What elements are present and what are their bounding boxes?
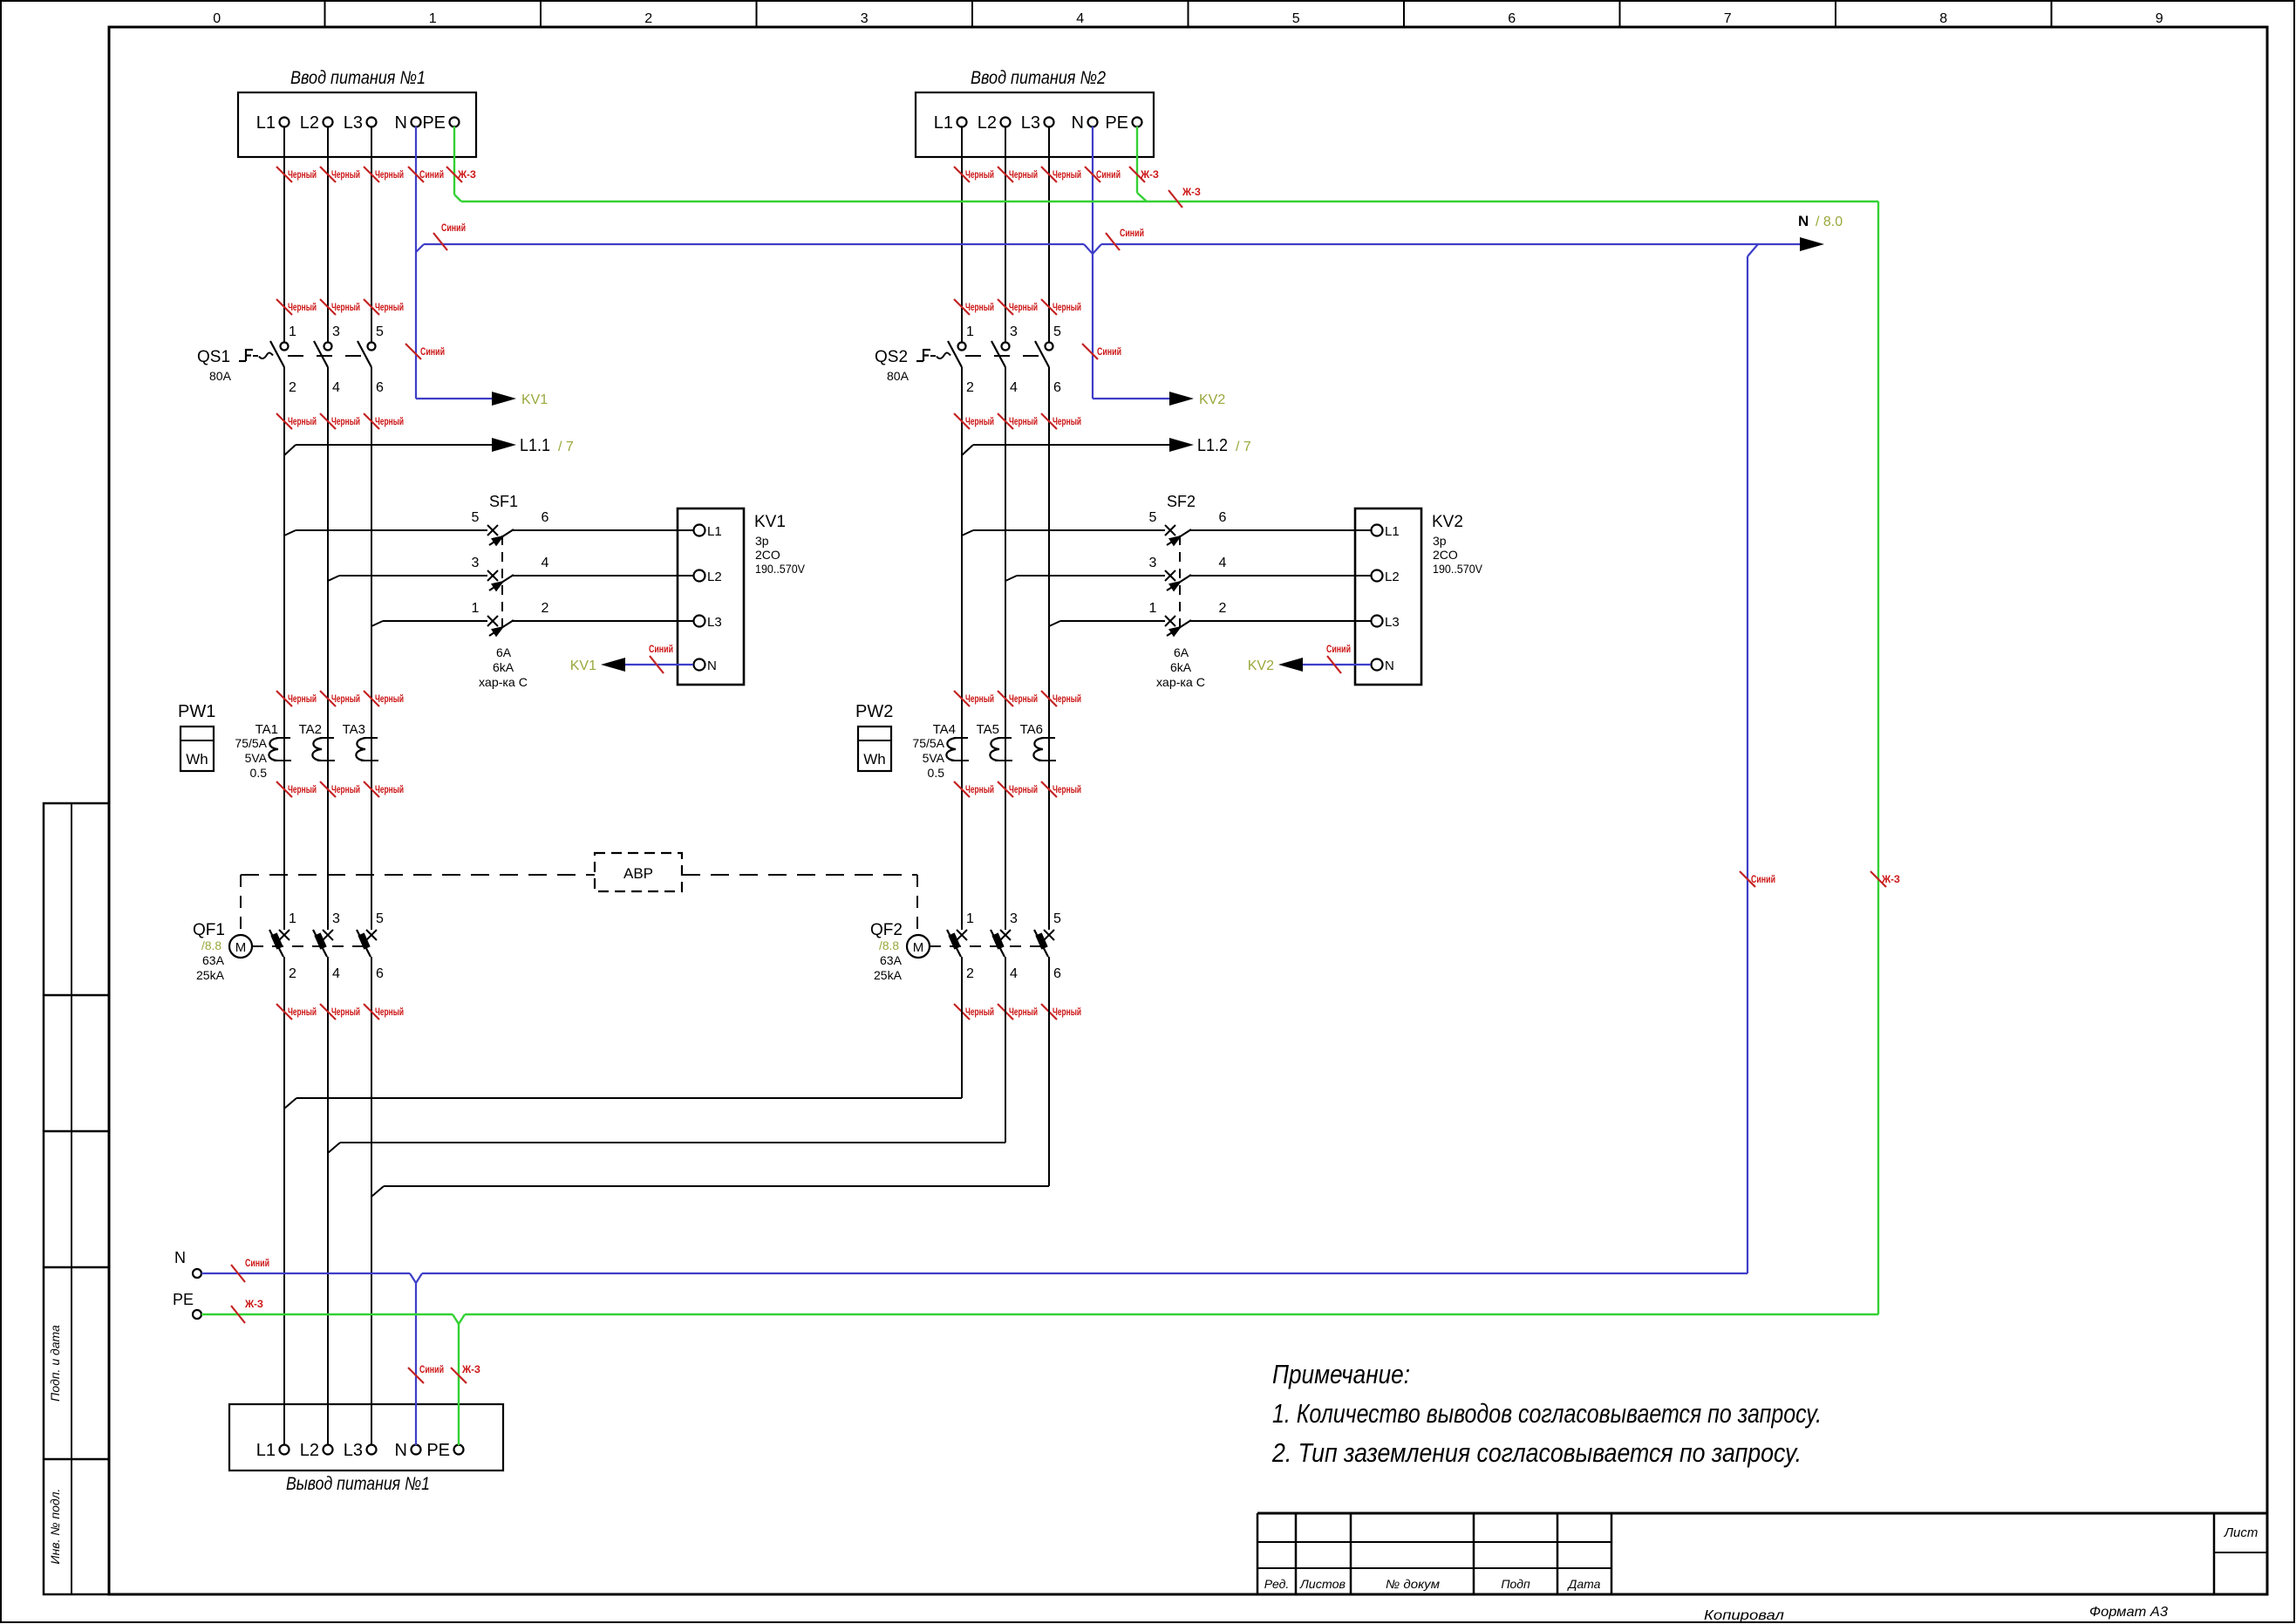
CT ratings for PW1 group: [235, 736, 267, 780]
svg-text:4: 4: [332, 380, 340, 395]
wire N bottom rail (blue): [201, 1273, 1748, 1283]
svg-text:Синий: Синий: [245, 1259, 269, 1269]
svg-text:6kA: 6kA: [493, 660, 514, 674]
wire color marks "Черный" below QF2: [954, 1004, 1081, 1020]
svg-text:2: 2: [542, 601, 549, 616]
svg-text:KV2: KV2: [1432, 513, 1463, 531]
svg-text:3: 3: [1149, 556, 1157, 570]
svg-text:L2: L2: [300, 113, 319, 133]
wire PE input-1 vertical (green): [453, 126, 455, 194]
svg-text:Дата: Дата: [1567, 1577, 1601, 1591]
current transformer TA6: [1020, 722, 1056, 761]
svg-text:6: 6: [376, 380, 384, 395]
svg-text:L3: L3: [344, 113, 363, 133]
svg-text:Синий: Синий: [1751, 875, 1775, 885]
svg-text:2: 2: [1219, 601, 1227, 616]
svg-text:Ж-З: Ж-З: [457, 170, 476, 181]
junction PE rail / PE input-2 (diagonal): [1137, 193, 1147, 201]
svg-text:PE: PE: [426, 1441, 450, 1460]
svg-text:Черный: Черный: [1053, 785, 1081, 795]
QF2 motor drive M: [907, 935, 930, 958]
wire L3 QS1-to-QF1 vertical: [371, 367, 372, 930]
svg-text:1: 1: [289, 911, 296, 926]
wire color mark "Ж-З" on PE rail right of input-2: [1168, 190, 1182, 208]
svg-text:5: 5: [1053, 324, 1061, 339]
QS1 pole 2 (pins 3-4): [314, 324, 340, 395]
junction PE1 to PE rail (diagonal): [454, 194, 461, 201]
svg-text:Черный: Черный: [965, 1007, 994, 1018]
svg-text:Синий: Синий: [1326, 645, 1351, 655]
current transformer TA3: [343, 722, 378, 761]
SF1 pole 2 (pins 3-4): [328, 556, 678, 591]
svg-text:5VA: 5VA: [923, 751, 945, 765]
svg-text:Черный: Черный: [1053, 1007, 1081, 1018]
wire L1 input-1 vertical: [283, 126, 285, 342]
svg-text:Черный: Черный: [331, 785, 360, 795]
svg-text:Копировал: Копировал: [1704, 1608, 1784, 1623]
svg-text:/ 7: / 7: [558, 440, 574, 454]
svg-text:Синий: Синий: [1096, 170, 1121, 181]
svg-text:L3: L3: [344, 1441, 363, 1460]
sidebar stamp boxes: [44, 803, 109, 1594]
wire N right vertical (blue): [1747, 256, 1748, 1273]
svg-text:KV1: KV1: [570, 658, 596, 673]
SF1 linkage dashed line: [501, 536, 503, 633]
svg-text:0.5: 0.5: [250, 766, 268, 780]
svg-text:N: N: [1072, 113, 1084, 133]
svg-text:N: N: [395, 1441, 407, 1460]
wire color marks above TA4-TA6: [954, 691, 1081, 706]
svg-text:KV2: KV2: [1199, 392, 1225, 407]
svg-text:1: 1: [966, 324, 974, 339]
wire L1 QS1-to-QF1 vertical: [283, 367, 285, 930]
svg-text:3: 3: [1010, 911, 1018, 926]
wire color marks below QS2: [954, 413, 1081, 429]
svg-text:Черный: Черный: [1053, 694, 1081, 705]
QF1 motor drive M: [229, 935, 252, 958]
svg-text:6: 6: [542, 510, 549, 525]
svg-text:Ж-З: Ж-З: [1140, 170, 1159, 181]
wire color marks above TA1-TA3: [276, 691, 404, 706]
svg-text:190..570V: 190..570V: [755, 562, 806, 576]
QS1 pole 1 (pins 1-2): [270, 324, 296, 395]
svg-text:Ж-З: Ж-З: [244, 1300, 263, 1310]
svg-text:0: 0: [213, 11, 221, 26]
wire KV2 coil feed (blue) from N2: [1093, 398, 1171, 399]
wire L3 QS2-to-QF2 vertical: [1048, 367, 1050, 930]
svg-text:Ж-З: Ж-З: [1881, 875, 1900, 885]
QS2 linkage dashed line: [930, 355, 936, 357]
wire color mark "Синий" on N rail right: [1106, 233, 1120, 250]
motorized circuit breaker QF2: [870, 921, 903, 982]
wire L1 QF1-to-output vertical: [283, 957, 285, 1445]
wire QF2 L3 riser: [1048, 957, 1050, 1186]
current transformer TA5: [977, 722, 1012, 761]
wire PE right vertical (green): [1877, 201, 1879, 1314]
svg-text:L3: L3: [1385, 615, 1400, 630]
wire color marks "Черный" below QF1: [276, 1004, 404, 1020]
svg-text:4: 4: [1219, 556, 1227, 570]
wire color marks above QS2: [954, 299, 1081, 315]
svg-text:M: M: [913, 940, 924, 955]
QF1 pole 1 (pins 1-2): [269, 911, 296, 981]
svg-text:PE: PE: [1105, 113, 1128, 133]
svg-text:Лист: Лист: [2224, 1525, 2259, 1540]
svg-text:/8.8: /8.8: [201, 938, 221, 952]
svg-text:TA6: TA6: [1020, 722, 1043, 737]
svg-text:N: N: [174, 1249, 186, 1266]
wire crossover L3 horizontal: [371, 1186, 1049, 1197]
svg-text:Ж-З: Ж-З: [461, 1365, 480, 1375]
wire N rail top (blue): [424, 243, 1084, 245]
svg-text:25kA: 25kA: [196, 968, 225, 982]
sheet column ruler: [213, 1, 2163, 27]
svg-text:Подп: Подп: [1501, 1577, 1530, 1591]
svg-text:1: 1: [429, 11, 437, 26]
svg-text:4: 4: [1010, 966, 1018, 981]
svg-text:QS2: QS2: [875, 348, 908, 366]
svg-text:Черный: Черный: [1053, 170, 1081, 181]
svg-text:Черный: Черный: [331, 417, 360, 427]
voltage relay KV2: [1355, 508, 1483, 685]
svg-text:Подп. и дата: Подп. и дата: [48, 1325, 62, 1402]
svg-text:L1: L1: [707, 524, 722, 539]
svg-text:Синий: Синий: [419, 1365, 444, 1375]
wire branch L1.1 with arrow: [284, 436, 574, 455]
wire L2 input-2 vertical: [1005, 126, 1006, 342]
SF2 linkage dashed line: [1179, 536, 1181, 633]
svg-text:PE: PE: [422, 113, 446, 133]
svg-text:N: N: [395, 113, 407, 133]
svg-text:Листов: Листов: [1299, 1577, 1346, 1591]
svg-text:Черный: Черный: [1009, 1007, 1038, 1018]
svg-text:L1: L1: [1385, 524, 1400, 539]
svg-text:L3: L3: [707, 615, 722, 630]
svg-text:M: M: [235, 940, 247, 955]
svg-text:KV2: KV2: [1248, 658, 1274, 673]
svg-text:2. Тип заземления согласовывае: 2. Тип заземления согласовывается по зап…: [1271, 1437, 1802, 1468]
svg-text:L1.1: L1.1: [520, 436, 550, 455]
svg-text:Черный: Черный: [965, 303, 994, 313]
SF1 pole 3 (pins 1-2): [371, 601, 678, 637]
SF2 pole 2 (pins 3-4): [1005, 556, 1355, 591]
wire branch L1.2 with arrow: [962, 436, 1251, 455]
switch-disconnector QS2: [875, 348, 1044, 383]
terminal N bottom-left: [174, 1249, 201, 1278]
QS2 pole 1 (pins 1-2): [948, 324, 974, 395]
svg-text:8: 8: [1939, 11, 1947, 26]
QF1 pole 3 (pins 5-6): [357, 911, 384, 981]
svg-text:L1: L1: [934, 113, 953, 133]
wire color marks below TA4-TA6: [954, 781, 1081, 797]
svg-text:Примечание:: Примечание:: [1272, 1359, 1410, 1389]
svg-text:L2: L2: [1385, 570, 1400, 584]
wire N input-2 vertical (blue): [1092, 126, 1093, 399]
SF2 pole 1 (pins 5-6): [962, 510, 1355, 546]
svg-text:5: 5: [1149, 510, 1157, 525]
svg-text:Синий: Синий: [1097, 347, 1121, 358]
svg-text:Черный: Черный: [288, 785, 317, 795]
svg-text:АВР: АВР: [623, 865, 653, 882]
svg-text:хар-ка С: хар-ка С: [479, 675, 528, 689]
svg-text:Черный: Черный: [331, 1007, 360, 1018]
svg-text:4: 4: [542, 556, 549, 570]
svg-text:KV1: KV1: [754, 513, 786, 531]
svg-text:/ 8.0: / 8.0: [1816, 215, 1843, 229]
wire PE bottom rail (green): [201, 1314, 1878, 1324]
wire PE input-2 vertical (green): [1136, 126, 1138, 193]
circuit breaker SF1: [479, 493, 528, 689]
svg-text:9: 9: [2156, 11, 2163, 26]
svg-text:2: 2: [644, 11, 652, 26]
svg-text:N: N: [1385, 658, 1394, 673]
svg-text:6: 6: [1219, 510, 1227, 525]
svg-text:Синий: Синий: [419, 170, 444, 181]
QS2 pole 3 (pins 5-6): [1035, 324, 1061, 395]
svg-text:6kA: 6kA: [1170, 660, 1192, 674]
svg-text:3: 3: [332, 324, 340, 339]
svg-text:Черный: Черный: [1009, 303, 1038, 313]
svg-text:6: 6: [376, 966, 384, 981]
SF1 pole 1 (pins 5-6): [284, 510, 678, 546]
svg-text:4: 4: [1076, 11, 1084, 26]
notes text: [1271, 1359, 1822, 1468]
svg-text:Черный: Черный: [1053, 303, 1081, 313]
wire color marks below input block 1: [276, 167, 476, 182]
wire color marks below input block 2: [954, 167, 1159, 182]
svg-text:1: 1: [472, 601, 480, 616]
QF2 pole 3 (pins 5-6): [1034, 911, 1061, 981]
svg-text:№ докум: № докум: [1386, 1577, 1440, 1591]
wire color mark "Синий" on N rail left: [433, 233, 447, 250]
svg-text:4: 4: [1010, 380, 1018, 395]
svg-text:KV1: KV1: [521, 392, 548, 407]
svg-text:1: 1: [1149, 601, 1157, 616]
ATS controller АВР (dashed box): [595, 853, 682, 891]
svg-text:PW2: PW2: [855, 702, 893, 721]
wire L3 input-2 vertical: [1048, 126, 1050, 342]
svg-text:хар-ка С: хар-ка С: [1156, 675, 1205, 689]
svg-text:Черный: Черный: [375, 170, 404, 181]
wire color marks below QS1: [276, 413, 404, 429]
svg-text:Черный: Черный: [965, 417, 994, 427]
svg-text:63A: 63A: [202, 953, 225, 967]
wire color mark "Синий" on KV2 N wire: [1327, 656, 1341, 673]
wire color mark "Синий" on right N vertical: [1740, 871, 1755, 887]
svg-text:Черный: Черный: [288, 303, 317, 313]
junction N rail to right N vertical (diagonal): [1748, 244, 1758, 256]
wire KV1 coil feed (blue) from N1: [416, 398, 494, 399]
motorized circuit breaker QF1: [193, 921, 225, 982]
energy meter PW1: [178, 702, 215, 771]
АВР dashed drop to QF2 motor: [916, 875, 918, 933]
QF2 pole 2 (pins 3-4): [991, 911, 1018, 981]
wire N input-1 vertical (blue): [415, 126, 417, 399]
wire L1 QS2-to-QF2 vertical: [961, 367, 963, 930]
svg-text:4: 4: [332, 966, 340, 981]
svg-text:Черный: Черный: [288, 170, 317, 181]
net arrow N / 8.0: [1800, 237, 1824, 251]
QS1 linkage dashed line: [253, 355, 258, 357]
svg-text:Wh: Wh: [863, 751, 886, 768]
АВР control dashed line right: [682, 874, 917, 876]
QF2 linkage dashed line: [930, 945, 1044, 947]
svg-text:7: 7: [1724, 11, 1732, 26]
svg-text:L2: L2: [300, 1441, 319, 1460]
wire L2 input-1 vertical: [327, 126, 329, 342]
terminal block "Ввод питания №1" XT1: [238, 68, 476, 157]
svg-text:80A: 80A: [887, 369, 910, 383]
terminal PE bottom-left: [173, 1291, 201, 1319]
wire QF2 L2 riser: [1005, 957, 1006, 1143]
wire color mark "Синий" on N2 vertical: [1082, 344, 1098, 359]
wire color mark "Ж-З" on right PE vertical: [1870, 871, 1886, 887]
wire color marks above QS1: [276, 299, 404, 315]
svg-text:80A: 80A: [209, 369, 232, 383]
svg-text:3p: 3p: [755, 534, 769, 548]
QS2 pole 2 (pins 3-4): [991, 324, 1018, 395]
svg-text:6A: 6A: [496, 645, 512, 659]
wire KV1 N pin to coil net arrow (blue): [570, 658, 693, 673]
svg-text:6: 6: [1508, 11, 1516, 26]
wire color mark "Синий" on bottom N rail: [231, 1265, 245, 1282]
svg-text:SF2: SF2: [1167, 493, 1196, 510]
svg-text:6: 6: [1053, 966, 1061, 981]
wire PE drop to output block (green): [458, 1324, 460, 1445]
svg-text:Черный: Черный: [1053, 417, 1081, 427]
svg-text:Черный: Черный: [1009, 785, 1038, 795]
energy meter PW2: [855, 702, 893, 771]
svg-text:2: 2: [966, 966, 974, 981]
svg-text:2: 2: [289, 966, 296, 981]
svg-text:2: 2: [966, 380, 974, 395]
svg-text:5: 5: [376, 911, 384, 926]
wire color mark "Синий" on N drop: [408, 1368, 424, 1383]
svg-text:Черный: Черный: [1009, 694, 1038, 705]
wire color mark "Синий" on N1 vertical: [405, 344, 421, 359]
terminal block "Ввод питания №2" XT2: [916, 68, 1154, 157]
svg-text:Черный: Черный: [331, 303, 360, 313]
svg-text:TA1: TA1: [255, 722, 278, 737]
svg-text:3: 3: [1010, 324, 1018, 339]
svg-text:25kA: 25kA: [874, 968, 903, 982]
svg-text:Wh: Wh: [186, 751, 208, 768]
svg-text:63A: 63A: [880, 953, 903, 967]
svg-text:5VA: 5VA: [245, 751, 268, 765]
svg-text:190..570V: 190..570V: [1433, 562, 1483, 576]
svg-text:N: N: [707, 658, 717, 673]
wire N drop to output block (blue): [415, 1283, 417, 1445]
svg-text:/ 7: / 7: [1236, 440, 1251, 454]
svg-text:QS1: QS1: [197, 348, 230, 366]
svg-text:L2: L2: [707, 570, 722, 584]
current transformer TA2: [299, 722, 335, 761]
svg-text:Черный: Черный: [375, 694, 404, 705]
svg-text:1: 1: [289, 324, 296, 339]
svg-text:TA3: TA3: [343, 722, 365, 737]
svg-text:Черный: Черный: [331, 170, 360, 181]
svg-text:6A: 6A: [1174, 645, 1189, 659]
svg-text:PW1: PW1: [178, 702, 215, 721]
svg-text:Черный: Черный: [375, 303, 404, 313]
svg-text:Синий: Синий: [1120, 229, 1144, 239]
svg-text:Черный: Черный: [288, 417, 317, 427]
svg-text:75/5A: 75/5A: [235, 736, 267, 750]
svg-text:0.5: 0.5: [928, 766, 945, 780]
wire crossover L1 horizontal: [284, 1098, 962, 1109]
wire PE rail top (green): [461, 201, 1878, 202]
current transformer TA1: [255, 722, 291, 761]
svg-text:Черный: Черный: [965, 694, 994, 705]
svg-text:5: 5: [472, 510, 480, 525]
title block: [1257, 1513, 2267, 1623]
svg-text:Ввод питания №1: Ввод питания №1: [290, 68, 426, 88]
wire L1 input-2 vertical: [961, 126, 963, 342]
wire L3 input-1 vertical: [371, 126, 372, 342]
svg-text:TA5: TA5: [977, 722, 999, 737]
svg-text:Черный: Черный: [288, 694, 317, 705]
svg-text:1: 1: [966, 911, 974, 926]
svg-text:L1: L1: [256, 1441, 276, 1460]
wire KV2 N pin to coil net arrow (blue): [1248, 658, 1371, 673]
svg-text:Черный: Черный: [1009, 170, 1038, 181]
svg-text:3: 3: [332, 911, 340, 926]
АВР dashed drop to QF1 motor: [240, 875, 242, 933]
svg-text:Черный: Черный: [965, 785, 994, 795]
svg-text:L3: L3: [1021, 113, 1040, 133]
svg-text:N: N: [1798, 213, 1809, 229]
QF1 pole 2 (pins 3-4): [313, 911, 340, 981]
svg-text:1. Количество выводов согласов: 1. Количество выводов согласовывается по…: [1272, 1398, 1822, 1429]
svg-text:2CO: 2CO: [1433, 548, 1458, 562]
junction N1 to N rail (diagonal): [416, 244, 424, 252]
svg-text:Черный: Черный: [288, 1007, 317, 1018]
svg-text:Черный: Черный: [375, 785, 404, 795]
current transformer TA4: [933, 722, 969, 761]
wire QF2 L1 riser: [961, 957, 963, 1098]
svg-text:Черный: Черный: [375, 1007, 404, 1018]
wire color mark "Ж-З" on bottom PE rail: [231, 1306, 245, 1323]
svg-text:3: 3: [861, 11, 869, 26]
svg-text:Синий: Синий: [649, 645, 673, 655]
QS1 pole 3 (pins 5-6): [358, 324, 384, 395]
wire color mark "Синий" on KV1 N wire: [650, 656, 664, 673]
svg-text:5: 5: [1053, 911, 1061, 926]
wire L3 QF1-to-output vertical: [371, 957, 372, 1445]
svg-text:Ред.: Ред.: [1264, 1577, 1289, 1591]
junction N rail / N input-2 (V dip): [1084, 244, 1093, 254]
svg-text:/8.8: /8.8: [879, 938, 899, 952]
net arrow KV2 (right): [1169, 392, 1194, 406]
svg-text:TA2: TA2: [299, 722, 322, 737]
svg-text:3p: 3p: [1433, 534, 1447, 548]
svg-text:TA4: TA4: [933, 722, 956, 737]
svg-text:2CO: 2CO: [755, 548, 780, 562]
circuit breaker SF2: [1156, 493, 1205, 689]
svg-text:Инв. № подл.: Инв. № подл.: [48, 1489, 62, 1565]
net arrow KV1 (right): [492, 392, 516, 406]
svg-text:5: 5: [376, 324, 384, 339]
svg-text:6: 6: [1053, 380, 1061, 395]
svg-text:75/5A: 75/5A: [912, 736, 944, 750]
switch-disconnector QS1: [197, 348, 366, 383]
svg-text:PE: PE: [173, 1291, 194, 1308]
svg-text:5: 5: [1292, 11, 1300, 26]
svg-text:QF1: QF1: [193, 921, 225, 939]
АВР control dashed line left: [241, 874, 595, 876]
svg-text:L1: L1: [256, 113, 276, 133]
SF2 pole 3 (pins 1-2): [1049, 601, 1355, 637]
